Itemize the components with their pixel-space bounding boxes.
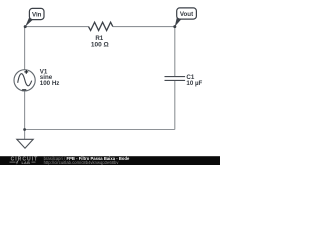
logo CircuitLab — [10, 157, 39, 166]
flag pointer Vout — [175, 16, 182, 27]
node B (Vout junction) — [173, 25, 176, 28]
svg-text:http://circuitlab.com/c8b4vknw: http://circuitlab.com/c8b4vknwqp3e68bv — [44, 160, 120, 165]
voltage source V1 — [14, 70, 35, 91]
flag Vin — [29, 8, 44, 19]
capacitor C1 — [165, 77, 186, 81]
wire: ground stub — [24, 130, 26, 140]
footer bar — [0, 156, 220, 165]
wire: bottom horizontal — [25, 129, 175, 131]
flag Vout — [177, 8, 197, 19]
wire: right vertical upper (Vout node to C1 top) — [174, 27, 176, 77]
wire: left vertical upper (node to V1 top) — [24, 27, 26, 70]
svg-text:LAB: LAB — [21, 161, 30, 165]
svg-text:Vout: Vout — [180, 11, 193, 18]
svg-text:100 Hz: 100 Hz — [40, 80, 60, 87]
svg-text:100 Ω: 100 Ω — [91, 42, 109, 49]
flag pointer Vin — [25, 16, 33, 27]
node ground junction — [23, 128, 26, 131]
wire: right vertical lower (C1 bottom to bottom wire) — [174, 80, 176, 129]
node A (Vin junction) — [24, 25, 27, 28]
svg-text:Vin: Vin — [32, 12, 42, 19]
wire: left vertical lower (V1 bottom to ground junction) — [24, 91, 26, 130]
svg-text:10 µF: 10 µF — [186, 80, 202, 87]
ground — [17, 139, 33, 148]
wire: top left node to resistor — [25, 26, 88, 28]
resistor R1 — [89, 22, 113, 30]
wire: resistor to Vout node — [113, 26, 175, 28]
